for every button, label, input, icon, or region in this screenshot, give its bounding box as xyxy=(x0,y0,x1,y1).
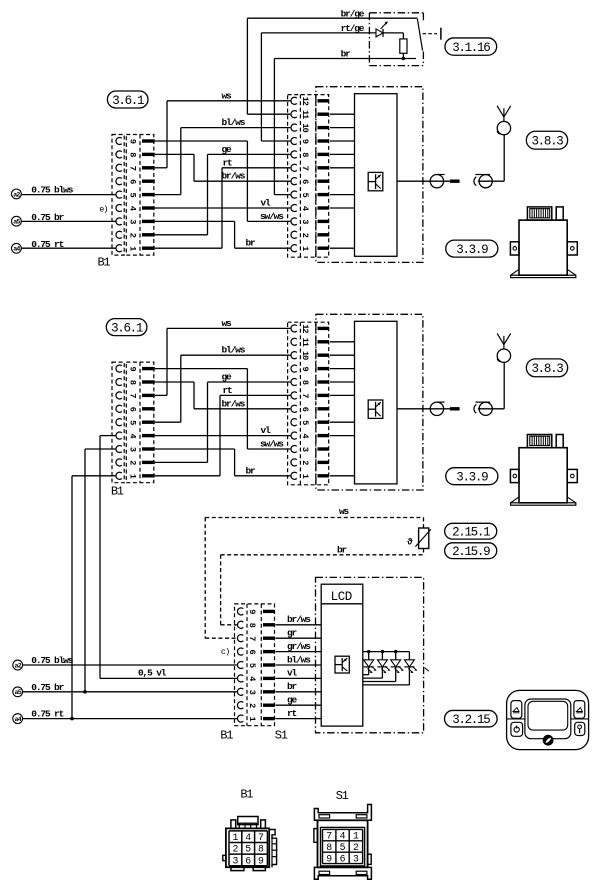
LED D3 xyxy=(363,652,391,679)
svg-text:3: 3 xyxy=(232,855,238,866)
svg-text:ws: ws xyxy=(222,90,233,101)
terminal lead (dashed) and terminal bar xyxy=(423,28,441,40)
note c) at S1 pin6 xyxy=(221,647,229,657)
oval label 3.8.3 (top) xyxy=(526,131,567,149)
wire to antenna (middle) xyxy=(478,363,504,409)
svg-text:br: br xyxy=(246,238,257,249)
wire br (dashed) sensor return xyxy=(221,545,424,625)
svg-text:3.1.16: 3.1.16 xyxy=(452,41,490,55)
svg-text:ws: ws xyxy=(339,506,350,517)
svg-text:e): e) xyxy=(99,204,107,214)
svg-text:LCD: LCD xyxy=(331,590,352,604)
wire ws: B1 pin7 to K12 xyxy=(155,90,290,168)
plug contact arc xyxy=(474,177,476,186)
svg-text:br/ws: br/ws xyxy=(222,171,246,182)
svg-text:7: 7 xyxy=(326,831,332,842)
wire br/ws: S1 pin8 to LCD xyxy=(276,614,322,625)
connector plug X3 (circle) xyxy=(430,402,444,415)
svg-text:3.2.15: 3.2.15 xyxy=(452,713,490,727)
svg-text:3.6.1: 3.6.1 xyxy=(111,321,143,335)
wire 0.75 rt from a4 to B1 pin1 xyxy=(21,239,115,250)
wire br: B1 pin3 to K1 xyxy=(155,221,290,248)
svg-text:S1: S1 xyxy=(336,789,349,803)
wire to antenna xyxy=(478,135,504,181)
svg-text:B1: B1 xyxy=(98,256,111,270)
svg-text:rt/ge: rt/ge xyxy=(341,23,365,34)
device icon: receiver module (top 3.3.9) xyxy=(510,207,577,278)
wire 0.75 br from a5 to B1 pin3 xyxy=(21,212,115,223)
label B1 (bottom connector) xyxy=(220,729,233,743)
wire ge middle: B1 pin2 to K8 xyxy=(155,372,290,463)
svg-text:4: 4 xyxy=(340,831,346,842)
svg-text:5: 5 xyxy=(340,842,346,853)
svg-text:rt: rt xyxy=(223,385,233,396)
svg-text:vl: vl xyxy=(261,198,272,209)
wire rt: S1 pin1 to LCD xyxy=(276,708,322,719)
svg-text:a5: a5 xyxy=(13,219,20,226)
svg-text:bl/ws: bl/ws xyxy=(287,654,311,665)
transistor symbol in U1 xyxy=(368,172,383,190)
svg-text:8: 8 xyxy=(258,844,264,855)
svg-text:ws: ws xyxy=(222,318,233,329)
oval label 3.3.9 (top) xyxy=(446,240,498,257)
wire br/ge from K11 to switch 3.1.16 xyxy=(247,8,417,114)
svg-text:B1: B1 xyxy=(220,729,233,743)
svg-text:12: 12 xyxy=(300,324,310,333)
pin stub wires into U2 xyxy=(330,342,355,476)
wire br from K5 to 3.1.16 xyxy=(274,48,416,194)
svg-text:3.3.9: 3.3.9 xyxy=(456,470,488,484)
svg-text:B1: B1 xyxy=(240,788,253,802)
output wire from U1 xyxy=(397,180,450,182)
svg-text:br: br xyxy=(341,48,352,59)
output wire from U2 xyxy=(397,408,450,410)
svg-text:bl/ws: bl/ws xyxy=(222,117,246,128)
svg-text:3.8.3: 3.8.3 xyxy=(531,362,563,376)
svg-text:br/ws: br/ws xyxy=(222,398,246,409)
oval label 3.1.16 xyxy=(445,38,497,55)
control unit U2 outer box (dash-dot) xyxy=(316,314,423,490)
svg-text:br/ws: br/ws xyxy=(287,614,311,625)
svg-text:a4: a4 xyxy=(15,716,22,723)
connector B1 middle (9-pin) xyxy=(112,362,155,483)
wire 0.75 blws from a2 to B1 pin5 xyxy=(21,185,115,196)
svg-text:a2: a2 xyxy=(15,662,22,669)
device icon: receiver module (middle 3.3.9) xyxy=(510,435,577,506)
device icon: control head (3.2.15) xyxy=(507,690,589,749)
svg-text:11: 11 xyxy=(300,110,310,119)
svg-text:vl: vl xyxy=(261,425,272,436)
wire br down: B1m pin3 joins a5 net xyxy=(83,449,115,694)
wire ge: B1 pin2 to K8 xyxy=(155,144,290,235)
label B1 (top connector) xyxy=(98,256,111,270)
svg-text:11: 11 xyxy=(300,338,310,347)
label S1 (face view) xyxy=(336,789,349,803)
connector face view S1 xyxy=(314,805,372,880)
stray arrow tail outside box xyxy=(425,668,429,672)
connector B1 top (9-pin, pins 9..1) xyxy=(112,135,155,256)
node a2 (bottom) xyxy=(13,660,23,670)
connector K middle (12-pin) xyxy=(288,322,329,485)
svg-text:gr/ws: gr/ws xyxy=(287,641,311,652)
svg-text:3.8.3: 3.8.3 xyxy=(531,134,563,148)
node a4 (bottom) xyxy=(13,714,23,724)
connector plug X1 (circle) xyxy=(430,175,444,188)
connector face view B1 xyxy=(223,817,277,871)
oval label 3.8.3 (middle) xyxy=(526,359,567,377)
connector K top (12-pin, pins 12..1) xyxy=(288,95,329,258)
svg-text:B1: B1 xyxy=(111,485,124,499)
svg-text:1: 1 xyxy=(232,832,238,843)
svg-text:2: 2 xyxy=(353,842,359,853)
wire br middle: B1 pin3 to K1 xyxy=(155,449,290,476)
node a5 (bottom) xyxy=(13,687,23,697)
svg-text:10: 10 xyxy=(300,351,310,360)
svg-text:gr: gr xyxy=(287,628,298,639)
wire 0.75 br from a5 to S1 pin3 xyxy=(23,682,237,693)
svg-text:c): c) xyxy=(221,647,229,657)
oval label 3.3.9 (middle) xyxy=(446,468,498,485)
svg-text:br/ge: br/ge xyxy=(341,8,365,19)
LED D5 xyxy=(363,652,418,685)
LED D4 xyxy=(363,652,404,682)
svg-text:2.15.9: 2.15.9 xyxy=(452,545,490,559)
svg-text:bl/ws: bl/ws xyxy=(222,345,246,356)
node a5 (top) xyxy=(12,216,22,226)
label B1 (face view) xyxy=(240,788,253,802)
LED rail from LCD unit xyxy=(363,650,410,653)
wire gr/ws: S1 pin6 to LCD xyxy=(276,641,322,652)
svg-text:br: br xyxy=(337,545,348,556)
svg-text:rt: rt xyxy=(223,157,233,168)
svg-text:7: 7 xyxy=(258,832,264,843)
control unit U1 inner box xyxy=(355,94,398,257)
wire ws middle: B1 pin7 to K12 xyxy=(155,318,290,396)
coax segment (thick, middle) xyxy=(450,407,460,410)
wire rt/ge from K9 to LED 3.1.16 xyxy=(261,23,376,141)
svg-text:2: 2 xyxy=(232,844,238,855)
wire sw/ws: B1 pin9 to K3 xyxy=(155,141,290,222)
wire ge: S1 pin2 to LCD xyxy=(276,695,322,706)
svg-text:br: br xyxy=(287,681,298,692)
wire br/ws: B1 pin8 to K6 xyxy=(155,154,290,181)
svg-text:6: 6 xyxy=(340,853,346,864)
svg-text:ge: ge xyxy=(222,144,233,155)
wire rt down: B1m pin1 joins a4 net xyxy=(70,476,115,721)
temperature sensor B2 (thermistor) xyxy=(407,528,431,549)
wire br: S1 pin3 to LCD xyxy=(276,681,322,692)
connector B1/S1 bottom (9-pin) xyxy=(235,604,275,726)
svg-text:ge: ge xyxy=(222,372,233,383)
svg-text:br: br xyxy=(246,465,257,476)
control unit U1 outer box (dash-dot) xyxy=(316,87,423,263)
svg-text:3.3.9: 3.3.9 xyxy=(456,243,488,257)
wire bl/ws: B1 pin5 to K10 xyxy=(155,117,290,195)
wire bl/ws middle: B1 pin5 to K10 xyxy=(155,345,290,423)
svg-text:6: 6 xyxy=(245,855,251,866)
resistor R1 in 3.1.16 xyxy=(400,39,407,53)
wire vl down: B1m pin4 to S1 pin4 xyxy=(100,436,237,679)
antenna A1 xyxy=(497,106,511,135)
coax segment (thick) xyxy=(450,180,460,183)
svg-text:rt: rt xyxy=(287,708,297,719)
wire ws (dashed) sensor loop xyxy=(205,506,423,638)
LED D2 xyxy=(363,652,377,675)
LCD unit outer box (dash-dot) xyxy=(316,577,424,732)
label LCD xyxy=(331,590,352,604)
connector plug X4 (circle) xyxy=(475,402,492,415)
wire rt middle: B1 pin1 to K7 xyxy=(155,385,290,476)
LED D1 in 3.1.16 xyxy=(376,21,388,37)
pin stub wires into U1 xyxy=(330,114,355,248)
wire bl/ws: S1 pin5 to LCD xyxy=(276,654,322,665)
wire 0.75 rt from a4 to S1 pin1 xyxy=(23,709,237,720)
svg-text:0,5 vl: 0,5 vl xyxy=(138,667,167,678)
node a2 (top) xyxy=(12,189,22,199)
svg-text:sw/ws: sw/ws xyxy=(260,211,284,222)
oval label 3.2.15 xyxy=(445,710,498,727)
svg-text:10: 10 xyxy=(300,123,310,132)
svg-text:vl: vl xyxy=(287,668,298,679)
wire LED to resistor xyxy=(383,33,403,39)
svg-text:9: 9 xyxy=(258,855,264,866)
svg-text:3.6.1: 3.6.1 xyxy=(112,94,144,108)
wire vl middle: B1 pin4 to K4 xyxy=(155,425,290,436)
transistor symbol in LCD unit xyxy=(335,656,349,673)
svg-text:sw/ws: sw/ws xyxy=(260,439,284,450)
wire 0.75 blws from a2 to S1 pin5 xyxy=(23,655,237,666)
plug contact arc (middle) xyxy=(474,405,476,414)
node a4 (top) xyxy=(12,243,22,253)
svg-text:a2: a2 xyxy=(13,191,20,198)
wire gr: S1 pin7 to LCD xyxy=(276,628,322,639)
oval label 3.6.1 (middle) xyxy=(106,319,147,336)
wire vl: B1 pin4 to K4 xyxy=(155,198,290,209)
antenna A2 xyxy=(497,333,511,362)
svg-text:9: 9 xyxy=(326,853,332,864)
svg-text:12: 12 xyxy=(300,97,310,106)
oval label 3.6.1 (top) xyxy=(107,91,148,108)
label S1 (bottom connector) xyxy=(275,729,288,743)
transistor symbol in U2 xyxy=(368,400,383,418)
wire sw/ws middle: B1 pin9 to K3 xyxy=(155,369,290,450)
svg-text:ϑ: ϑ xyxy=(407,537,413,547)
svg-text:2.15.1: 2.15.1 xyxy=(452,525,490,539)
svg-text:a5: a5 xyxy=(15,689,22,696)
oval label 2.15.9 xyxy=(445,543,497,559)
wire br/ws middle: B1 pin8 to K6 xyxy=(155,382,290,409)
LCD unit inner box xyxy=(321,584,363,726)
svg-text:a4: a4 xyxy=(13,246,20,253)
svg-text:1: 1 xyxy=(353,831,359,842)
svg-text:ge: ge xyxy=(287,695,298,706)
connector plug X2 (circle) xyxy=(475,175,492,188)
svg-text:S1: S1 xyxy=(275,729,288,743)
label B1 (middle connector) xyxy=(111,485,124,499)
svg-text:3: 3 xyxy=(353,853,359,864)
svg-text:4: 4 xyxy=(245,832,251,843)
wire rt: B1 pin1 to K7 xyxy=(155,157,290,248)
switch blade S in 3.1.16 xyxy=(417,19,422,51)
svg-text:5: 5 xyxy=(245,844,251,855)
oval label 2.15.1 xyxy=(445,523,497,539)
control unit U2 inner box xyxy=(355,321,398,484)
wire resistor to br, junction xyxy=(402,53,405,60)
note e) at B1 pin4 xyxy=(99,204,107,214)
svg-text:8: 8 xyxy=(326,842,332,853)
box unit 3.1.16 (illuminated switch) xyxy=(369,13,423,66)
wire vl: S1 pin4 to LCD xyxy=(276,668,322,679)
